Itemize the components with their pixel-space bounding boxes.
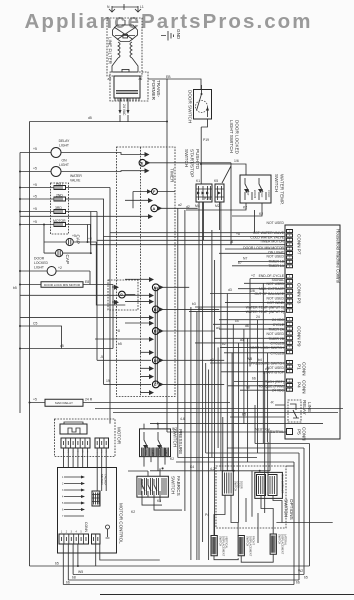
timer contact B1	[20, 299, 219, 320]
svg-text:+2: +2	[251, 274, 255, 278]
svg-text:24 VDC: 24 VDC	[272, 318, 284, 322]
timer dashed box	[117, 147, 176, 397]
middle riser mesh wires	[178, 163, 270, 560]
svg-text:FORMER: FORMER	[151, 80, 156, 101]
bus y470.8	[150, 467, 270, 471]
tachometer	[92, 474, 110, 538]
svg-text:LIGHT: LIGHT	[59, 144, 69, 148]
node N	[107, 5, 115, 12]
wire row y326	[19, 322, 62, 349]
svg-text:C: C	[154, 383, 157, 387]
svg-text:1/6: 1/6	[250, 289, 255, 293]
wires P3 rows	[189, 279, 285, 312]
svg-text:ON: ON	[61, 159, 67, 163]
svg-text:d6: d6	[245, 324, 249, 328]
svg-text:OPTIONS: OPTIONS	[289, 499, 294, 520]
timer contact B2	[95, 321, 214, 342]
svg-text:CAP: CAP	[76, 235, 81, 244]
timer inner divider	[140, 147, 142, 397]
delay light L1	[20, 139, 71, 158]
svg-text:D: D	[154, 359, 157, 363]
svg-text:+2: +2	[88, 237, 92, 241]
svg-text:B: B	[154, 308, 157, 312]
svg-text:b6: b6	[296, 580, 300, 584]
push to start stop switch S2	[184, 149, 224, 560]
svg-text:d8: d8	[246, 386, 250, 390]
svg-text:K3: K3	[157, 499, 161, 503]
svg-text:+5: +5	[33, 398, 37, 402]
line filter choke coils	[118, 42, 132, 58]
svg-text:a2: a2	[178, 203, 182, 207]
svg-text:TIMER 2A: TIMER 2A	[268, 328, 284, 332]
svg-text:+5: +5	[33, 207, 37, 211]
water valve coil hot	[19, 182, 110, 190]
svg-text:LIGHT: LIGHT	[34, 266, 44, 270]
svg-text:SWITCH: SWITCH	[284, 499, 289, 517]
fabrics switch S5	[128, 468, 182, 515]
svg-text:SWITCH: SWITCH	[171, 476, 176, 494]
svg-text:P4: P4	[297, 382, 302, 388]
svg-text:EMPTY: EMPTY	[165, 451, 167, 459]
svg-text:PUSH TO: PUSH TO	[195, 149, 200, 170]
wire extra risers lower right	[246, 442, 268, 543]
water valve WV dashed box	[51, 174, 83, 234]
bottom bus wires	[30, 544, 310, 585]
timer contact E	[71, 152, 231, 173]
wires relay rows	[230, 401, 285, 418]
P4 row labels	[258, 380, 284, 393]
svg-text:+5: +5	[33, 147, 37, 151]
svg-text:HOT: HOT	[246, 190, 250, 196]
svg-text:CAP: CAP	[65, 255, 70, 264]
svg-text:DOOR SWITCH: DOOR SWITCH	[188, 90, 193, 123]
P7 row labels	[243, 221, 285, 268]
svg-text:N7: N7	[243, 257, 247, 261]
svg-text:SWITCH: SWITCH	[184, 149, 189, 167]
svg-text:K4: K4	[190, 465, 194, 469]
svg-text:LOCKED: LOCKED	[34, 261, 48, 265]
svg-text:VALVE: VALVE	[70, 179, 81, 183]
wire to water temp switch	[200, 159, 246, 175]
svg-text:TORQUE (PWM): TORQUE (PWM)	[258, 384, 284, 388]
transformer body	[114, 69, 140, 101]
svg-text:P19: P19	[203, 138, 209, 142]
svg-text:P4: P4	[205, 513, 209, 517]
timer contact G	[108, 280, 138, 310]
svg-text:b6: b6	[66, 580, 70, 584]
household machine control box	[285, 225, 340, 439]
svg-text:MAIN RELAY: MAIN RELAY	[55, 401, 73, 405]
connector P7 pins	[287, 230, 302, 268]
svg-text:TIMER 2B: TIMER 2B	[268, 337, 284, 341]
svg-text:HOT WIND: HOT WIND	[267, 301, 285, 305]
svg-text:b5: b5	[13, 286, 17, 290]
timer motor coil	[19, 219, 91, 227]
svg-text:-5: -5	[100, 355, 103, 359]
svg-text:b4: b4	[258, 358, 262, 362]
svg-text:WATER: WATER	[70, 174, 82, 178]
svg-text:+5: +5	[33, 167, 37, 171]
svg-text:CYCLES: CYCLES	[270, 351, 284, 355]
connector P4 pins	[287, 379, 307, 394]
max extract switch option	[255, 472, 285, 498]
svg-text:CONN P9: CONN P9	[297, 326, 302, 347]
svg-text:a5: a5	[108, 77, 112, 81]
svg-text:MOTOR: MOTOR	[117, 427, 122, 445]
svg-text:1/6: 1/6	[234, 159, 239, 163]
svg-text:d4: d4	[198, 307, 202, 311]
line filter capacitor X network	[113, 20, 138, 42]
node L1	[135, 5, 144, 12]
main relay K1	[29, 398, 231, 407]
motor control internal lines	[62, 476, 85, 519]
motor dashed box	[55, 419, 116, 457]
svg-text:+5: +5	[33, 183, 37, 187]
svg-text:-R: -R	[270, 401, 274, 405]
door locked light switch label	[222, 120, 240, 183]
svg-text:b3: b3	[192, 302, 196, 306]
bottom separator	[100, 594, 354, 596]
transformer T1 dashed box	[110, 72, 148, 101]
svg-text:19: 19	[106, 379, 110, 383]
timer contact D	[97, 350, 224, 371]
svg-text:a3: a3	[240, 338, 244, 342]
svg-text:A: A	[153, 207, 156, 211]
svg-text:24 R: 24 R	[85, 398, 93, 402]
svg-text:OUT OF BALANCE: OUT OF BALANCE	[254, 292, 284, 296]
door locked light L3	[19, 257, 90, 285]
svg-text:b5: b5	[118, 342, 122, 346]
svg-text:W5: W5	[78, 570, 83, 574]
svg-text:N: N	[154, 286, 157, 290]
svg-text:B: B	[154, 330, 157, 334]
svg-text:NOT USED: NOT USED	[267, 221, 285, 225]
svg-text:b6: b6	[252, 377, 256, 381]
svg-text:+2: +2	[58, 266, 62, 270]
svg-text:MAX. EXTRACT: MAX. EXTRACT	[281, 474, 285, 494]
svg-text:c3: c3	[265, 367, 269, 371]
svg-text:a4: a4	[216, 326, 220, 330]
svg-text:d2: d2	[186, 205, 190, 209]
svg-text:LIGHT SWITCH: LIGHT SWITCH	[229, 120, 234, 153]
svg-text:EMPTY: EMPTY	[151, 451, 153, 459]
svg-text:NOT USED: NOT USED	[267, 282, 285, 286]
capacitor C2	[43, 212, 92, 264]
svg-text:W5: W5	[247, 357, 252, 361]
svg-text:+5: +5	[33, 220, 37, 224]
svg-text:M2: M2	[215, 204, 220, 208]
svg-text:MAX. EXTRACT: MAX. EXTRACT	[259, 287, 284, 291]
svg-text:WATER TEMP (INPUT 1): WATER TEMP (INPUT 1)	[246, 306, 284, 310]
svg-text:SWITCH: SWITCH	[218, 536, 222, 546]
wires P4 rows	[228, 382, 285, 391]
wires K2 from water temp	[186, 203, 263, 216]
left rail A x29.5	[29, 122, 31, 567]
wires P1 rows	[210, 363, 285, 372]
svg-text:LIGHT: LIGHT	[59, 163, 69, 167]
svg-text:DOOR LOCKED: DOOR LOCKED	[235, 120, 240, 155]
svg-text:C5: C5	[33, 322, 37, 326]
dimension marks top	[112, 4, 138, 10]
wires P7 rows	[97, 233, 285, 266]
svg-text:DELAY: DELAY	[59, 139, 71, 143]
svg-text:CYCLE: CYCLE	[273, 323, 285, 327]
svg-text:K2: K2	[259, 212, 263, 216]
timer contact N	[20, 277, 189, 298]
pressure switch S4	[140, 424, 184, 471]
motor control leads down	[96, 544, 160, 566]
wires options switch outputs	[214, 495, 282, 535]
wires P9 rows	[195, 320, 285, 353]
svg-text:d5: d5	[88, 116, 92, 120]
svg-text:24: 24	[256, 315, 260, 319]
svg-text:MOTOR CONTROL: MOTOR CONTROL	[119, 503, 124, 544]
svg-text:c4: c4	[235, 319, 239, 323]
vertical displacement switch	[211, 536, 228, 557]
svg-text:TIMER: TIMER	[170, 168, 175, 183]
svg-text:Household Machine Control: Household Machine Control	[336, 229, 341, 283]
svg-text:START/STOP: START/STOP	[190, 149, 195, 177]
capacitor C1	[44, 225, 125, 306]
line filter LF1 box	[107, 18, 142, 76]
wire door switch to start switch	[201, 127, 209, 184]
svg-text:EB: EB	[166, 75, 171, 79]
svg-text:-8: -8	[230, 240, 233, 244]
svg-text:2ND: 2ND	[56, 194, 63, 198]
P1 row labels	[251, 362, 285, 375]
wire row y348	[19, 344, 113, 350]
svg-text:P5: P5	[297, 429, 302, 435]
svg-text:E8: E8	[85, 280, 89, 284]
svg-text:W2: W2	[298, 569, 303, 573]
svg-text:+5: +5	[72, 234, 76, 238]
svg-text:+8: +8	[116, 329, 120, 333]
svg-text:K1: K1	[196, 179, 200, 183]
svg-text:WARM: WARM	[253, 190, 257, 198]
wire transformer secondary 24VAC	[108, 77, 143, 122]
connector P1 pins	[287, 361, 307, 376]
longitudinal displacement switch	[270, 534, 287, 555]
valve risers	[91, 188, 231, 424]
door lock mw motor M2	[13, 280, 113, 349]
svg-text:b2: b2	[222, 342, 226, 346]
svg-text:24 VDC: 24 VDC	[272, 389, 284, 393]
svg-text:SWITCH: SWITCH	[277, 534, 281, 544]
svg-text:CONN: CONN	[84, 522, 88, 533]
on light L2	[19, 159, 71, 177]
svg-text:PRESSURE: PRESSURE	[178, 429, 183, 454]
svg-text:CONN P7: CONN P7	[297, 234, 302, 255]
svg-text:CONN P3: CONN P3	[297, 283, 302, 304]
water valve coil cold	[19, 194, 104, 202]
svg-text:+8: +8	[236, 232, 240, 236]
svg-text:GND: GND	[176, 29, 181, 40]
timer inner bus wires	[155, 287, 157, 384]
svg-text:HOT: HOT	[56, 182, 63, 186]
svg-text:FABRICS: FABRICS	[176, 476, 181, 496]
horizontal displacement switch	[238, 536, 255, 557]
svg-text:K2: K2	[170, 457, 174, 461]
P3 row labels	[246, 274, 285, 314]
svg-text:M4: M4	[195, 204, 200, 208]
long bus rows mid-low	[95, 409, 343, 425]
connector P5 pin	[287, 427, 307, 441]
svg-text:WATER TEMP.: WATER TEMP.	[280, 174, 285, 205]
taper to transformer	[112, 58, 138, 72]
motor control connector	[59, 522, 100, 544]
line relay K2	[288, 400, 312, 422]
motor connector left	[61, 438, 90, 468]
svg-text:b8: b8	[72, 576, 76, 580]
svg-text:SWITCH: SWITCH	[245, 536, 249, 546]
svg-text:b5: b5	[304, 576, 308, 580]
svg-text:REGULAR: REGULAR	[141, 479, 144, 489]
connector P3 pins	[287, 275, 302, 313]
svg-text:CYCLES: CYCLES	[270, 341, 284, 345]
svg-text:LINE FILTER: LINE FILTER	[108, 37, 113, 65]
svg-text:COLD: COLD	[260, 190, 264, 197]
wire main bus y121	[30, 116, 168, 122]
wire cross rows lower right	[176, 444, 310, 467]
timer contact A	[20, 198, 198, 219]
right frame riser wires	[294, 444, 310, 585]
motor control box	[58, 468, 117, 554]
svg-text:AppliancePartsPros.com: AppliancePartsPros.com	[25, 10, 311, 33]
svg-text:a6: a6	[139, 77, 143, 81]
door switch S1	[188, 85, 212, 127]
svg-text:d5: d5	[60, 344, 64, 348]
svg-text:d3: d3	[228, 288, 232, 292]
timer contact F	[133, 189, 175, 209]
svg-text:DOOR LOCK SWITCH: DOOR LOCK SWITCH	[249, 346, 284, 350]
connector P9 pins	[287, 318, 302, 354]
left rail B x20	[19, 153, 21, 414]
svg-text:3RD: 3RD	[55, 206, 62, 210]
svg-text:SWITCH: SWITCH	[274, 174, 279, 192]
svg-text:DOOR LOCK MW MOTOR: DOOR LOCK MW MOTOR	[44, 283, 81, 287]
wire displacement interconnect	[214, 523, 333, 563]
wire hot feed to door switch	[148, 75, 201, 89]
options switch dashed box	[216, 466, 286, 528]
svg-text:DOOR: DOOR	[34, 257, 45, 261]
svg-text:c2: c2	[210, 358, 214, 362]
water temp switch S3	[240, 174, 285, 205]
P9 row labels	[249, 318, 284, 355]
svg-text:K2: K2	[131, 510, 135, 514]
wire neutral row	[167, 428, 287, 433]
svg-text:COLD: COLD	[267, 190, 271, 197]
svg-text:SWITCH: SWITCH	[234, 481, 238, 491]
svg-text:METER: METER	[100, 474, 104, 485]
svg-text:WATER TEMP (INPUT 2): WATER TEMP (INPUT 2)	[246, 310, 284, 314]
neutral rail x167	[166, 79, 168, 433]
svg-text:b7: b7	[238, 261, 242, 265]
motor winding symbol	[60, 422, 87, 434]
svg-text:P19: P19	[204, 197, 210, 201]
svg-text:L1: L1	[140, 5, 144, 9]
svg-text:K2: K2	[243, 206, 247, 210]
timer contact C	[104, 374, 225, 395]
ground GND symbol	[161, 29, 181, 41]
svg-text:4-6: 4-6	[180, 417, 185, 421]
motor connector right	[95, 438, 109, 491]
svg-text:b5: b5	[55, 562, 59, 566]
svg-text:MOTOR: MOTOR	[53, 219, 66, 223]
P5 row label	[268, 430, 284, 434]
wire id labels	[88, 197, 269, 517]
water valve coil 3	[19, 206, 97, 214]
svg-text:24 VAC: 24 VAC	[122, 104, 126, 116]
svg-text:NOT USED: NOT USED	[267, 255, 285, 259]
svg-text:SWITCH: SWITCH	[173, 429, 178, 447]
svg-text:NOT USED: NOT USED	[267, 332, 285, 336]
svg-text:K5: K5	[214, 179, 218, 183]
svg-text:+5: +5	[33, 195, 37, 199]
door lock switch option	[222, 471, 243, 495]
svg-text:NOT USED: NOT USED	[267, 297, 285, 301]
svg-text:P1: P1	[297, 364, 302, 370]
